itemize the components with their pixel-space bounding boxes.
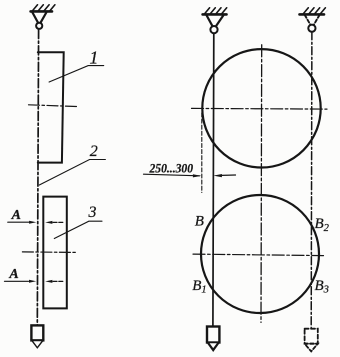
section arrow A lower left — [5, 280, 29, 282]
plumb bob right figure (solid) — [207, 327, 219, 343]
svg-text:1: 1 — [89, 48, 98, 68]
left support hatching — [33, 5, 55, 11]
auxiliary plumb line (right figure, dash-dot phantom) — [310, 32, 313, 329]
right support triangle (dashed) — [305, 15, 320, 25]
svg-text:В: В — [195, 213, 204, 229]
svg-text:A: A — [11, 208, 21, 223]
vertical centerline of column — [260, 45, 263, 323]
upper circle horizontal centerline — [192, 107, 328, 110]
dimension line 250...300 with arrow right — [144, 174, 200, 176]
left support bar — [31, 10, 52, 13]
section arrow A upper left — [8, 221, 29, 223]
left support pivot circle — [36, 23, 42, 29]
label 1 leader — [49, 66, 104, 82]
middle support hatching — [205, 8, 227, 14]
svg-text:3: 3 — [88, 204, 97, 221]
dimension counter arrow at plumb line — [222, 174, 236, 176]
main plumb line (right figure, solid) — [212, 33, 215, 326]
middle support pivot circle — [210, 26, 217, 33]
rect 1 centerline — [29, 105, 77, 107]
right support pivot circle — [308, 25, 315, 32]
label 2 leader — [39, 160, 105, 186]
plumb bob auxiliary (dashed phantom) — [305, 329, 318, 344]
rectangle 1 (element 1) — [38, 52, 64, 162]
middle support bar — [203, 13, 227, 16]
right support hatching — [303, 8, 325, 14]
svg-text:A: A — [8, 267, 18, 282]
left support triangle — [32, 12, 46, 23]
plumb bob left figure — [31, 325, 43, 340]
svg-text:2: 2 — [90, 143, 98, 160]
svg-text:250...300: 250...300 — [149, 160, 194, 175]
rect 3 centerline — [22, 251, 75, 254]
plumb line (left figure, dashed cord) — [37, 30, 38, 326]
upper circle (column top section) — [202, 49, 320, 167]
lower circle horizontal centerline — [193, 254, 324, 256]
lower circle (column bottom section) — [201, 195, 319, 313]
extension line from circle edge to dimension — [201, 113, 203, 193]
middle support triangle — [206, 15, 223, 26]
label 3 leader — [54, 221, 102, 238]
right support bar — [300, 13, 325, 16]
section arrow A upper right — [53, 221, 64, 223]
section arrow A lower right — [53, 280, 64, 282]
rectangle 3 (element 3) — [43, 197, 67, 309]
